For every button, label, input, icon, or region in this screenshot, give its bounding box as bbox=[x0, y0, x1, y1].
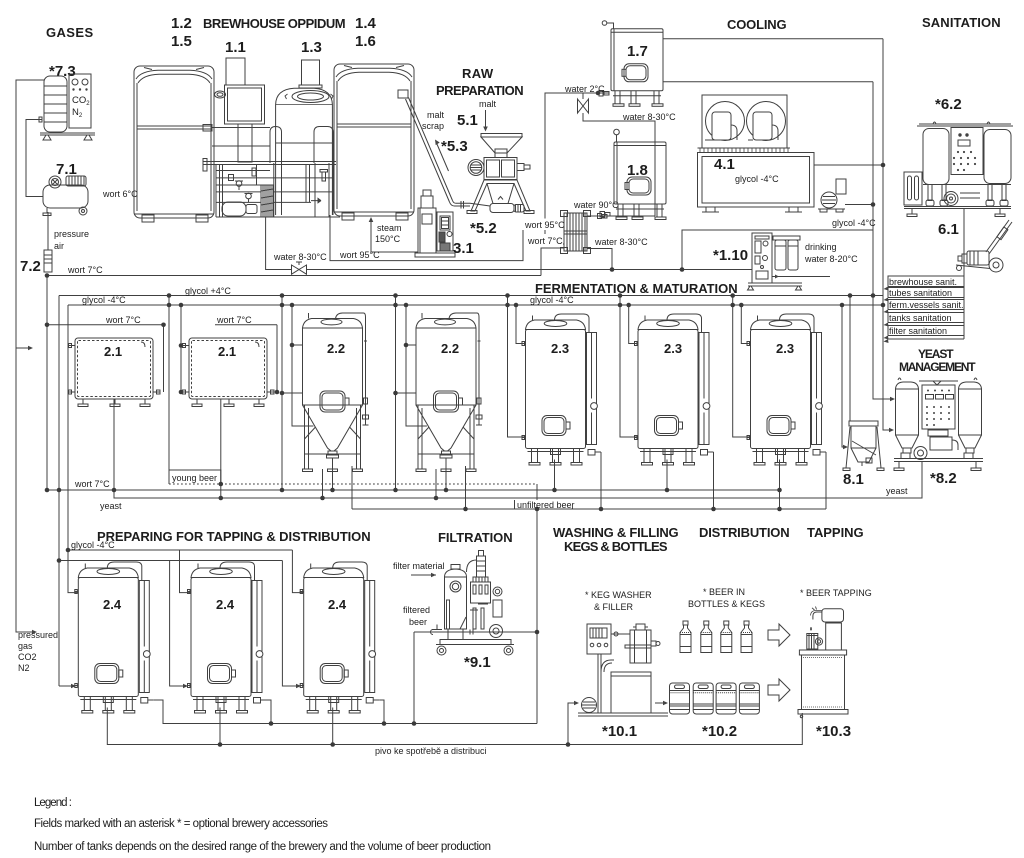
svg-text:BREWHOUSE OPPIDUM: BREWHOUSE OPPIDUM bbox=[203, 16, 346, 31]
junction (292,305) bbox=[290, 303, 295, 308]
svg-text:yeast: yeast bbox=[886, 486, 908, 496]
beer tapping *10.3 bbox=[798, 607, 848, 718]
tank 2.1 #1 bbox=[68, 338, 160, 407]
tank 2.3 #3 bbox=[747, 314, 827, 465]
svg-text:wort 6°C: wort 6°C bbox=[102, 189, 138, 199]
wire right column x883 bbox=[883, 39, 891, 430]
junction (612,269.5) bbox=[610, 267, 615, 272]
svg-text:water 8-30°C: water 8-30°C bbox=[273, 252, 327, 262]
svg-text:FERMENTATION & MATURATION: FERMENTATION & MATURATION bbox=[535, 281, 738, 296]
junction (384,723.5) bbox=[382, 721, 387, 726]
junction (598,93) bbox=[596, 91, 601, 96]
svg-text:1.5: 1.5 bbox=[171, 33, 192, 50]
wire 2.3#1 connections bbox=[508, 296, 526, 438]
svg-text:SANITATION: SANITATION bbox=[922, 15, 1001, 30]
svg-text:water 90°C: water 90°C bbox=[573, 200, 619, 210]
svg-text:*5.3: *5.3 bbox=[441, 138, 468, 155]
unfiltered beer label box bbox=[515, 501, 573, 510]
wire 7.3 to 7.1 bbox=[26, 120, 43, 197]
svg-text:7.2: 7.2 bbox=[20, 258, 41, 275]
block arrow bottom bbox=[768, 679, 790, 701]
svg-text:& FILLER: & FILLER bbox=[594, 602, 634, 612]
malt scrap arrow bbox=[435, 140, 449, 172]
valve on L1 bbox=[292, 265, 307, 274]
wire unfiltered beer bbox=[352, 508, 826, 510]
keg washer *10.1 bbox=[578, 624, 668, 716]
junction (741.3,305) bbox=[739, 303, 744, 308]
svg-text:tanks sanitation: tanks sanitation bbox=[889, 313, 952, 323]
junction (282,295.5) bbox=[280, 293, 285, 298]
block arrow top bbox=[768, 624, 790, 646]
svg-text:wort 7°C: wort 7°C bbox=[67, 265, 103, 275]
svg-text:unfiltered beer: unfiltered beer bbox=[517, 500, 575, 510]
svg-text:young beer: young beer bbox=[172, 473, 217, 483]
brewhouse tank 1.4/1.6 bbox=[334, 64, 414, 220]
svg-text:*10.3: *10.3 bbox=[816, 723, 851, 740]
junction (406,345) bbox=[404, 343, 409, 348]
svg-text:2.1: 2.1 bbox=[104, 344, 122, 359]
junction (779.5,490) bbox=[777, 488, 782, 493]
svg-text:3.1: 3.1 bbox=[453, 240, 474, 257]
junction (620,295.5) bbox=[618, 293, 623, 298]
svg-text:wort 7°C: wort 7°C bbox=[527, 236, 563, 246]
svg-text:*10.1: *10.1 bbox=[602, 723, 637, 740]
svg-text:* BEER IN: * BEER IN bbox=[703, 587, 745, 597]
malt arrow bbox=[483, 110, 488, 132]
fermenter 2.2 #1 bbox=[303, 313, 369, 472]
wire gas main left bbox=[16, 80, 44, 632]
svg-text:2.2: 2.2 bbox=[441, 341, 459, 356]
tank 2.4 #1 bbox=[74, 562, 154, 713]
junction (271,723.5) bbox=[269, 721, 274, 726]
junction (220.8,498) bbox=[219, 496, 224, 501]
tank 2.3 #2 bbox=[634, 314, 714, 465]
svg-text:wort 95°C: wort 95°C bbox=[524, 220, 565, 230]
junction (220,744.5) bbox=[218, 742, 223, 747]
svg-text:1.6: 1.6 bbox=[355, 33, 376, 50]
svg-text:brewhouse sanit.: brewhouse sanit. bbox=[889, 277, 957, 287]
junction (277,392) bbox=[275, 390, 280, 395]
wire water 90C bbox=[587, 215, 655, 217]
svg-text:steam: steam bbox=[377, 223, 402, 233]
junction (732.7,295.5) bbox=[730, 293, 735, 298]
svg-text:2.4: 2.4 bbox=[328, 597, 347, 612]
wire HX wort in/out bbox=[541, 248, 564, 276]
wire 2.1 risers bbox=[168, 296, 170, 471]
junction (163.5,324.8) bbox=[161, 323, 166, 328]
svg-text:2.3: 2.3 bbox=[776, 341, 794, 356]
svg-text:malt: malt bbox=[427, 110, 445, 120]
junction (59,490) bbox=[57, 488, 62, 493]
svg-text:water 2°C: water 2°C bbox=[564, 84, 605, 94]
junction (282,490) bbox=[280, 488, 285, 493]
svg-text:malt: malt bbox=[479, 99, 497, 109]
water treatment *1.10 bbox=[748, 233, 831, 290]
svg-text:TAPPING: TAPPING bbox=[807, 525, 864, 540]
svg-text:*1.10: *1.10 bbox=[713, 247, 748, 264]
wire chiller to columns bbox=[814, 164, 883, 166]
svg-text:Legend :: Legend : bbox=[34, 797, 72, 809]
wire 8.1 feeds bbox=[849, 296, 851, 422]
junction (873,204.5) bbox=[871, 202, 876, 207]
bottles bbox=[680, 621, 691, 653]
svg-text:scrap: scrap bbox=[422, 121, 444, 131]
svg-text:tubes sanitation: tubes sanitation bbox=[889, 288, 952, 298]
young beer label box bbox=[169, 470, 221, 484]
svg-text:air: air bbox=[54, 241, 64, 251]
mash vessel 1.3 body bbox=[276, 88, 333, 215]
junction (842,305) bbox=[840, 303, 845, 308]
tank 2.4 #3 bbox=[300, 562, 380, 713]
svg-text:yeast: yeast bbox=[100, 501, 122, 511]
steam generator 3.1 bbox=[415, 190, 455, 257]
steam line to kettle bbox=[369, 217, 418, 252]
svg-text:2.2: 2.2 bbox=[327, 341, 345, 356]
svg-text:4.1: 4.1 bbox=[714, 156, 735, 173]
junction (873,295.5) bbox=[871, 293, 876, 298]
junction (114,490) bbox=[112, 488, 117, 493]
yeast management station *8.2 bbox=[894, 378, 983, 471]
wire wort 95C bbox=[330, 215, 564, 261]
wire 7.1 to 7.2 bbox=[47, 212, 49, 250]
svg-text:water 8-30°C: water 8-30°C bbox=[622, 112, 676, 122]
junction (883,305) bbox=[881, 303, 886, 308]
svg-text:beer: beer bbox=[409, 617, 427, 627]
wire HX water out bbox=[587, 249, 612, 270]
junction (779.5,509) bbox=[777, 507, 782, 512]
junction (220.8,484) bbox=[219, 482, 224, 487]
svg-text:*6.2: *6.2 bbox=[935, 96, 962, 113]
junction (332.5,490) bbox=[330, 488, 335, 493]
svg-text:*8.2: *8.2 bbox=[930, 470, 957, 487]
brew kettle 1.1 chimney bbox=[226, 58, 245, 85]
pressure reducer 7.2 bbox=[44, 250, 52, 272]
svg-text:N2: N2 bbox=[18, 663, 30, 673]
brewhouse small valves bbox=[229, 170, 328, 203]
junction (414,723.5) bbox=[412, 721, 417, 726]
svg-text:PREPARATION: PREPARATION bbox=[436, 83, 524, 98]
water tank 1.7 bbox=[611, 29, 663, 107]
svg-text:*5.2: *5.2 bbox=[470, 220, 497, 237]
svg-text:1.7: 1.7 bbox=[627, 43, 648, 60]
wire pivo distribution line bbox=[107, 708, 802, 745]
wire 2.3#2 connections bbox=[620, 296, 638, 438]
wire glycol +4 header bbox=[59, 295, 883, 297]
malt scrap conveyor *5.3 bbox=[398, 90, 490, 209]
wire gas branch arrow bbox=[16, 347, 30, 349]
yeast vessel 8.1 bbox=[843, 421, 884, 471]
fermenter 2.2 #2 bbox=[416, 313, 482, 472]
tank 2.3 #1 bbox=[522, 314, 602, 465]
junction (181,305) bbox=[179, 303, 184, 308]
svg-text:1.2: 1.2 bbox=[171, 15, 192, 32]
junction (169,295.5) bbox=[167, 293, 172, 298]
mobile sanitation trolley 6.1 bbox=[956, 220, 1012, 272]
svg-text:7.1: 7.1 bbox=[56, 161, 77, 178]
junction (395.5,490) bbox=[393, 488, 398, 493]
brewhouse tank 1.2/1.5 bbox=[134, 66, 214, 222]
svg-text:1.1: 1.1 bbox=[225, 39, 246, 56]
svg-text:pressured: pressured bbox=[18, 630, 58, 640]
svg-text:glycol +4°C: glycol +4°C bbox=[185, 286, 231, 296]
junction (282,393) bbox=[280, 391, 285, 396]
wire glycol return y230 bbox=[682, 230, 873, 270]
svg-text:pressure: pressure bbox=[54, 229, 89, 239]
svg-text:2.4: 2.4 bbox=[216, 597, 235, 612]
junction (667,490) bbox=[665, 488, 670, 493]
junction (883,165) bbox=[881, 163, 886, 168]
svg-text:*7.3: *7.3 bbox=[49, 63, 76, 80]
wire wort feed 2.1#1 bbox=[47, 324, 164, 326]
wire 2.2#1 connections bbox=[281, 296, 283, 491]
junction (465.5,509) bbox=[463, 507, 468, 512]
junction (181,392) bbox=[179, 390, 184, 395]
svg-text:* BEER TAPPING: * BEER TAPPING bbox=[800, 588, 872, 598]
wire 7.2 down to 2.4 feed bbox=[46, 276, 48, 491]
junction (682,269.5) bbox=[680, 267, 685, 272]
junction (507.5,295.5) bbox=[505, 293, 510, 298]
wire 2.4 collection line bbox=[154, 700, 537, 724]
svg-text:6.1: 6.1 bbox=[938, 221, 959, 238]
beer filter *9.1 bbox=[430, 551, 514, 656]
svg-text:GASES: GASES bbox=[46, 25, 94, 40]
wire wort 7C bottom bbox=[47, 489, 780, 491]
svg-text:2.3: 2.3 bbox=[664, 341, 682, 356]
junction (169,305) bbox=[167, 303, 172, 308]
junction (554.5,490) bbox=[552, 488, 557, 493]
svg-text:wort 7°C: wort 7°C bbox=[74, 479, 110, 489]
brewhouse wort pump bbox=[222, 202, 257, 216]
gas cylinders *7.3 bbox=[40, 74, 95, 140]
wire 2.3#3 connections bbox=[733, 296, 751, 438]
air compressor 7.1 bbox=[43, 176, 88, 216]
junction (47,275.5) bbox=[45, 273, 50, 278]
junction (406,305) bbox=[404, 303, 409, 308]
wire yeast line bbox=[114, 399, 922, 498]
wire young beer (dashed) bbox=[169, 483, 537, 485]
svg-text:8.1: 8.1 bbox=[843, 471, 864, 488]
wire wort feed 2.1#2 bbox=[215, 324, 277, 326]
svg-text:filtered: filtered bbox=[403, 605, 430, 615]
svg-text:1.3: 1.3 bbox=[301, 39, 322, 56]
junction (436,498) bbox=[434, 496, 439, 501]
wire filtration column bbox=[536, 484, 538, 724]
glycol pump of 4.1 bbox=[818, 179, 846, 212]
water tank 1.8 bbox=[614, 142, 666, 220]
white label backings bbox=[515, 219, 645, 509]
svg-text:glycol -4°C: glycol -4°C bbox=[71, 540, 115, 550]
junction (68,550) bbox=[66, 548, 71, 553]
svg-text:MANAGEMENT: MANAGEMENT bbox=[899, 360, 976, 374]
junction (850,295.5) bbox=[848, 293, 853, 298]
svg-text:drinking: drinking bbox=[805, 242, 837, 252]
tank 2.4 #2 bbox=[187, 562, 267, 713]
junction (395.5,295.5) bbox=[393, 293, 398, 298]
tank 2.1 #2 bbox=[182, 338, 274, 407]
junction (620,305) bbox=[618, 303, 623, 308]
junction (332.7,744.5) bbox=[330, 742, 335, 747]
svg-text:YEAST: YEAST bbox=[918, 347, 954, 361]
junction (395.5,393) bbox=[393, 391, 398, 396]
wire right column x873 bbox=[873, 82, 892, 399]
svg-text:* KEG WASHER: * KEG WASHER bbox=[585, 590, 652, 600]
svg-text:wort 7°C: wort 7°C bbox=[105, 315, 141, 325]
svg-text:*9.1: *9.1 bbox=[464, 654, 491, 671]
svg-text:WASHING & FILLING: WASHING & FILLING bbox=[553, 525, 679, 540]
svg-text:Fields marked with an asterisk: Fields marked with an asterisk * = optio… bbox=[34, 818, 328, 830]
svg-text:FILTRATION: FILTRATION bbox=[438, 530, 513, 545]
junction (47,490) bbox=[45, 488, 50, 493]
wire 2.1#2 glycol bbox=[180, 305, 182, 392]
svg-text:COOLING: COOLING bbox=[727, 17, 787, 32]
junction (507.5,305) bbox=[505, 303, 510, 308]
CIP sanitation station *6.2 bbox=[904, 122, 1013, 217]
junction (516,305) bbox=[514, 303, 519, 308]
junction (395.5,305) bbox=[393, 303, 398, 308]
plate heat exchanger bbox=[561, 211, 591, 254]
svg-text:150°C: 150°C bbox=[375, 234, 401, 244]
svg-text:5.1: 5.1 bbox=[457, 112, 478, 129]
brewhouse heat exchanger (hatched) bbox=[261, 185, 273, 217]
svg-text:PREPARING FOR TAPPING & DISTRI: PREPARING FOR TAPPING & DISTRIBUTION bbox=[97, 529, 371, 544]
wire glycol -4 header bbox=[68, 304, 883, 306]
wire beer feed to 2.4 header bbox=[59, 560, 282, 562]
wire glycol 2.4 header bbox=[68, 549, 292, 551]
svg-text:filter sanitation: filter sanitation bbox=[889, 326, 947, 336]
svg-text:pivo ke spotřebě a distribuci: pivo ke spotřebě a distribuci bbox=[375, 746, 487, 756]
brew kettle 1.1 control panel bbox=[215, 85, 265, 162]
wire 2.2#2 connections bbox=[395, 296, 397, 491]
junction (292,345) bbox=[290, 343, 295, 348]
svg-text:glycol -4°C: glycol -4°C bbox=[530, 295, 574, 305]
junction (713.5,509) bbox=[711, 507, 716, 512]
svg-text:DISTRIBUTION: DISTRIBUTION bbox=[699, 525, 790, 540]
svg-text:2.3: 2.3 bbox=[551, 341, 569, 356]
svg-text:2.4: 2.4 bbox=[103, 597, 122, 612]
svg-text:glycol -4°C: glycol -4°C bbox=[832, 218, 876, 228]
mash vessel 1.3 chimney bbox=[299, 60, 322, 88]
valve water 2C branch bbox=[582, 93, 584, 99]
svg-text:water 8-20°C: water 8-20°C bbox=[804, 254, 858, 264]
wire CIP to boxes bbox=[963, 209, 965, 277]
svg-text:2.1: 2.1 bbox=[218, 344, 236, 359]
svg-text:1.4: 1.4 bbox=[355, 15, 377, 32]
wire water 8-30C brewhouse (L1) bbox=[266, 217, 752, 270]
svg-text:water 8-30°C: water 8-30°C bbox=[594, 237, 648, 247]
svg-text:*10.2: *10.2 bbox=[702, 723, 737, 740]
svg-text:Number of tanks depends on the: Number of tanks depends on the desired r… bbox=[34, 841, 491, 853]
wire washer feed bbox=[568, 703, 576, 745]
filter material arrow bbox=[411, 573, 436, 578]
junction (628.7,305) bbox=[626, 303, 631, 308]
svg-text:1.8: 1.8 bbox=[627, 162, 648, 179]
junction (537,632) bbox=[535, 630, 540, 635]
junction (322.5,498) bbox=[320, 496, 325, 501]
junction (537,509) bbox=[535, 507, 540, 512]
kegs row bbox=[670, 683, 690, 714]
svg-text:ferm.vessels sanit.: ferm.vessels sanit. bbox=[889, 300, 964, 310]
malt mill 5.1 bbox=[467, 134, 534, 214]
chiller 4.1 bbox=[698, 95, 815, 212]
svg-text:glycol -4°C: glycol -4°C bbox=[735, 174, 779, 184]
sanitation distribution boxes bbox=[884, 276, 965, 343]
svg-text:BOTTLES & KEGS: BOTTLES & KEGS bbox=[688, 599, 765, 609]
wire water 2C bbox=[545, 243, 564, 245]
junction (601,509) bbox=[599, 507, 604, 512]
svg-text:filter material: filter material bbox=[393, 561, 445, 571]
junction (282,305) bbox=[280, 303, 285, 308]
junction (446,490) bbox=[444, 488, 449, 493]
junction (732.7,305) bbox=[730, 303, 735, 308]
junction (568,744.5) bbox=[566, 742, 571, 747]
junction (59,560.5) bbox=[57, 558, 62, 563]
svg-text:KEGS & BOTTLES: KEGS & BOTTLES bbox=[564, 539, 668, 554]
wire 1.7 to right column bbox=[663, 38, 883, 40]
svg-text:CO2: CO2 bbox=[18, 652, 37, 662]
svg-text:glycol -4°C: glycol -4°C bbox=[82, 295, 126, 305]
svg-text:gas: gas bbox=[18, 641, 33, 651]
junction (47,324.8) bbox=[45, 323, 50, 328]
svg-text:RAW: RAW bbox=[462, 66, 494, 81]
wire wort 7C main (L2) bbox=[47, 275, 541, 277]
svg-text:wort 7°C: wort 7°C bbox=[216, 315, 252, 325]
brewhouse piping rails bbox=[203, 125, 340, 218]
junction (181,345.5) bbox=[179, 343, 184, 348]
